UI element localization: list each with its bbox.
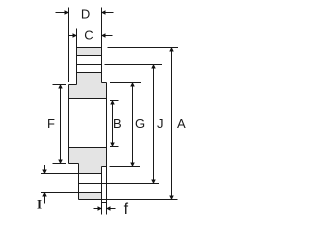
svg-text:I: I (37, 196, 42, 211)
hub threaded bore white zone (77, 56, 102, 73)
svg-text:f: f (124, 201, 129, 218)
dimension f left arrow (94, 208, 102, 210)
svg-text:F: F (47, 116, 55, 131)
disc bottom step line (69, 163, 79, 165)
boss thread line 3 with I bottom extension (41, 192, 102, 194)
boss right edge with f left extension (101, 167, 103, 215)
dimension F line (60, 85, 62, 164)
extension line D-C right (101, 8, 103, 48)
dimension f right arrow (107, 208, 116, 210)
svg-text:C: C (84, 27, 93, 42)
J top tick (105, 64, 163, 66)
hub thread line 3 (77, 72, 102, 74)
raised face strip right extension (106, 203, 108, 215)
dimension I bottom arrow (44, 193, 46, 204)
svg-text:J: J (157, 116, 164, 131)
boss thread line 1 with I top extension (41, 173, 102, 175)
B bottom tick (110, 146, 119, 148)
dimension J line (153, 65, 155, 184)
dimension B line (112, 101, 114, 147)
extension line C left (76, 29, 78, 48)
svg-text:A: A (177, 116, 186, 131)
dimension A line (171, 48, 173, 200)
boss bottom edge with A bottom extension (79, 199, 178, 201)
F top tick (53, 84, 67, 86)
hub thread line 2 (77, 64, 102, 66)
dimension D right arrow (102, 12, 114, 14)
svg-text:D: D (81, 7, 90, 22)
extension line D left / disc left (68, 8, 70, 83)
dimension C left arrow (69, 35, 77, 37)
bore line bottom (69, 147, 107, 149)
dimension G line (132, 83, 134, 167)
svg-text:G: G (135, 116, 145, 131)
dimension I top arrow (44, 165, 46, 174)
B top tick (110, 100, 119, 102)
boss threaded bore white zone (79, 174, 102, 193)
boss left edge (78, 164, 80, 200)
hub outline (77, 48, 102, 85)
svg-text:B: B (113, 116, 122, 131)
dimension D left arrow (56, 12, 69, 14)
dimension C right arrow (102, 35, 113, 37)
flange hub section fill (top) (69, 48, 107, 99)
boss thread line 2 with J bottom extension (79, 183, 160, 185)
disc top edge right step segment (102, 82, 107, 84)
bore line top (69, 98, 107, 100)
A top tick (108, 47, 179, 49)
flange lower section fill (disc bottom band + threaded boss) (69, 148, 107, 200)
raised face strip top (102, 166, 107, 168)
disc left edge (68, 85, 70, 164)
F bottom tick (53, 163, 67, 165)
G bottom tick (110, 166, 141, 168)
G top tick (110, 82, 141, 84)
hub thread line 1 (77, 55, 102, 57)
disc top edge left segment (69, 84, 77, 86)
raised face strip bottom (102, 202, 107, 204)
disc right edge (106, 83, 108, 203)
